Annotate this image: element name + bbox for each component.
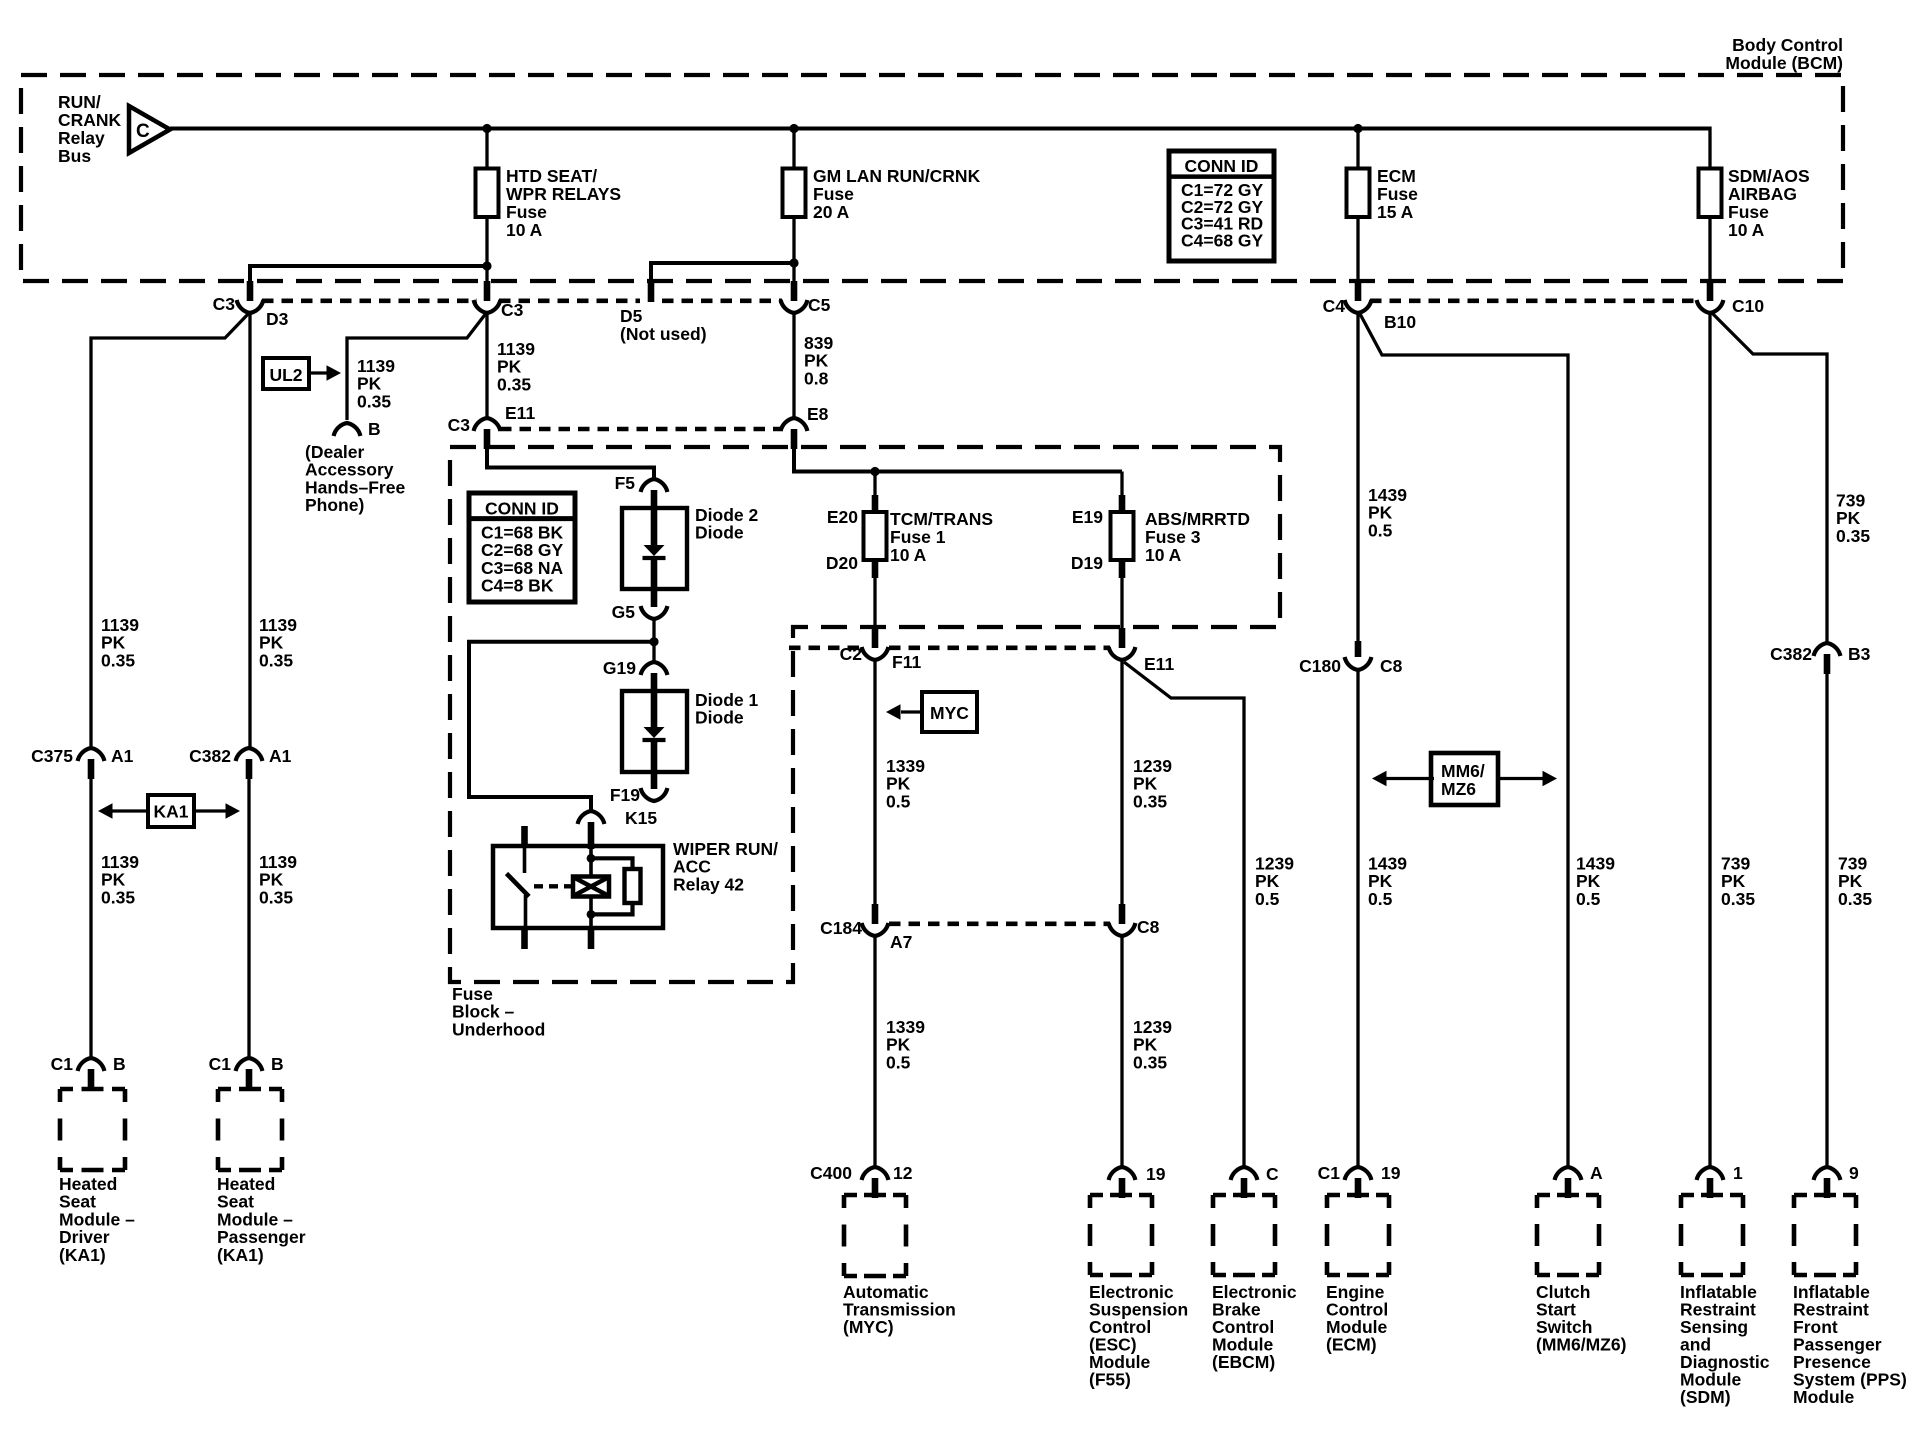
label C4 [1323,296,1346,316]
relay actuator dashed link [534,884,572,888]
svg-text:Fuse: Fuse [813,184,854,204]
Automatic Transmission box [844,1195,906,1276]
wire C10 down to SDM [1708,311,1711,1166]
svg-text:C400: C400 [810,1163,852,1183]
fuse SDM/AOS AIRBAG 10A [1699,169,1722,218]
label C1 (ECM) [1318,1163,1341,1183]
label Heated Seat Module Driver [59,1174,135,1265]
wire D3 diagonal to driver column [91,312,250,747]
svg-text:MM6/: MM6/ [1441,761,1485,781]
label F5 [615,473,636,493]
junction dot bus-ECM fuse [1353,124,1362,133]
svg-text:G5: G5 [612,602,636,622]
Inflatable Restraint PPS box [1794,1195,1856,1275]
svg-text:10 A: 10 A [1728,220,1765,240]
connector C5 pin [781,281,808,313]
svg-text:E11: E11 [1144,654,1174,674]
svg-text:B: B [113,1054,126,1074]
label Clutch Start Switch text [1536,1282,1626,1355]
svg-text:B: B [271,1054,284,1074]
connector C1/19 (ECM) [1345,1167,1372,1198]
svg-text:C2: C2 [840,644,863,664]
svg-text:D20: D20 [826,553,858,573]
svg-text:Diode: Diode [695,708,744,728]
connector A (clutch) [1555,1167,1582,1198]
svg-text:C10: C10 [1732,296,1764,316]
svg-text:15 A: 15 A [1377,202,1414,222]
svg-text:C3: C3 [501,300,524,320]
label C382 (A1) [189,746,231,766]
label GM LAN RUN/CRNK Fuse 20 A [813,166,981,222]
MM6/MZ6 harness arrow [1372,753,1557,805]
Fuse Block - Underhood dashed box [450,447,1280,982]
label C2 [840,644,863,664]
RUN/CRANK Relay Bus label [58,92,122,166]
svg-text:0.35: 0.35 [1133,791,1167,811]
wire TCM fuse to F11 [872,560,879,629]
relay pin stub top-left [521,826,528,848]
svg-text:(KA1): (KA1) [217,1245,264,1265]
wire dealer accessory branch [347,312,487,420]
label ESC module text [1089,1282,1188,1390]
wire branch to D5 [651,261,794,283]
junction dot branch D3 [482,261,491,270]
svg-text:C1: C1 [1318,1163,1341,1183]
Electronic Suspension Control box [1090,1195,1152,1275]
label 19 (ESC) [1146,1164,1166,1184]
svg-text:19: 19 [1146,1164,1166,1184]
label A1 (passenger) [269,746,292,766]
label G19 [603,658,636,678]
wire C375 to arrow-region driver [89,779,92,1058]
svg-text:Module: Module [1793,1387,1855,1407]
connector C3/D3 pin [237,281,264,313]
label Heated Seat Module Passenger [217,1174,306,1265]
KA1 harness arrow [98,795,240,827]
MYC callout box and arrow [886,692,977,732]
label 1139 PK 0.35 driver upper [101,615,139,670]
Heated Seat Module Driver box [60,1089,125,1170]
svg-text:10 A: 10 A [506,220,543,240]
label E8 [807,404,829,424]
wire branch to D3 [250,264,487,283]
relay switch [507,847,530,928]
wire C8 to ESC [1120,936,1123,1166]
connector 1 (SDM) [1697,1167,1724,1198]
svg-text:AIRBAG: AIRBAG [1728,184,1797,204]
svg-text:(SDM): (SDM) [1680,1387,1731,1407]
wire fuse GMLAN to connector C5 [792,217,795,283]
connector C3/E11 (fuse block) [474,418,501,449]
label 1139 PK 0.35 (dealer wire) [357,356,395,411]
label 12 [893,1163,913,1183]
wire B3 down to PPS [1825,674,1828,1166]
fuse ABS/MRRTD Fuse 3 10A [1111,512,1134,560]
connector D5 stub [648,283,655,302]
label Dealer Accessory Hands-Free Phone [305,442,405,515]
svg-text:Fuse: Fuse [506,202,547,222]
fuse TCM/TRANS Fuse 1 10A [864,512,887,560]
connector row dotted line BCM [262,298,1698,303]
connector row dotted line C184-C8 [889,921,1110,926]
label D3 [266,309,289,329]
CONN ID table (BCM) [1169,151,1274,261]
label 1339 PK 0.5 lower [886,1017,925,1072]
wire D3 to passenger column [248,311,251,747]
svg-text:D5: D5 [620,306,643,326]
label A1 (driver) [111,746,134,766]
svg-text:(F55): (F55) [1089,1370,1131,1390]
label Body Control Module (BCM) [1725,35,1843,73]
junction dot branch D5 [789,258,798,267]
label B3 [1848,644,1871,664]
wire fuse SDM to connector C10 [1708,217,1711,283]
Engine Control Module box [1327,1195,1389,1275]
CONN ID table (fuse block) [469,493,575,602]
WIPER RUN/ACC Relay 42 box [493,846,663,928]
svg-text:10 A: 10 A [890,545,927,565]
svg-text:B10: B10 [1384,312,1416,332]
label 1139 PK 0.35 passenger lower [259,852,297,907]
label 1239 PK 0.35 lower [1133,1017,1172,1072]
svg-text:Relay: Relay [58,128,105,148]
connector C2/F11 [862,628,889,660]
wire E11 into fuse block [487,448,654,478]
RUN/CRANK relay bus source triangle C [129,106,170,153]
junction dot TCM branch [870,467,879,476]
label B dealer [368,419,381,439]
label 739 PK 0.35 (PPS lower) [1838,854,1872,909]
wire C382 to arrow-region passenger [247,779,250,1058]
junction dot relay top [587,854,596,863]
svg-text:C4: C4 [1323,296,1346,316]
svg-text:0.35: 0.35 [1133,1052,1167,1072]
connector B dealer accessory [334,423,361,436]
relay pin stub bottom-left [521,927,528,949]
svg-text:C4=8 BK: C4=8 BK [481,576,554,596]
label 739 PK 0.35 (PPS upper) [1836,491,1870,546]
svg-text:A7: A7 [890,932,912,952]
label D20 [826,553,858,573]
connector 19 (ESC) [1109,1167,1136,1198]
label 1439 PK 0.5 (clutch) [1576,854,1615,909]
junction dot bus-GMLAN fuse [789,124,798,133]
svg-text:0.5: 0.5 [886,791,911,811]
fuse GM LAN RUN/CRNK 20A [783,169,806,218]
wire C5 to E8 [792,311,795,419]
label 1439 PK 0.5 (ECM upper) [1368,485,1407,540]
wire E8 into fuse block [794,448,1122,472]
label 1339 PK 0.5 upper [886,756,925,811]
svg-text:E11: E11 [505,403,535,423]
svg-text:0.35: 0.35 [497,374,531,394]
svg-text:0.35: 0.35 [259,887,293,907]
wire bus to fuse ECM [1356,129,1359,169]
label 9 (PPS) [1849,1163,1859,1183]
connector C382/B3 [1814,643,1841,674]
svg-text:F11: F11 [892,652,921,672]
label G5 [612,602,636,622]
connector C184/A7 [862,904,889,936]
svg-text:0.5: 0.5 [1368,520,1393,540]
connector C180/C8 [1345,641,1372,670]
relay resistor [591,858,641,914]
svg-text:A1: A1 [111,746,134,766]
svg-text:C3: C3 [448,415,471,435]
svg-text:19: 19 [1381,1163,1401,1183]
svg-text:WPR RELAYS: WPR RELAYS [506,184,621,204]
svg-text:Body Control: Body Control [1732,35,1843,55]
svg-text:C184: C184 [820,918,862,938]
svg-text:C382: C382 [1770,644,1812,664]
label Diode 1 [695,690,758,728]
wire RUN/CRANK relay bus [170,127,1710,171]
svg-text:C375: C375 [31,746,73,766]
label E20 [827,507,858,527]
svg-text:F19: F19 [610,785,640,805]
label C8 (C180) [1380,656,1403,676]
connector row dotted line F11-E11 [789,645,1110,650]
wire fuse ECM to connector C4 [1356,217,1359,283]
label C184 [820,918,862,938]
label C382 (B3) [1770,644,1812,664]
label E11 (exit) [1144,654,1174,674]
label HTD SEAT/WPR RELAYS Fuse 10 A [506,166,621,240]
relay coil [573,844,609,928]
svg-text:(ECM): (ECM) [1326,1335,1377,1355]
svg-text:Fuse 1: Fuse 1 [890,527,946,547]
connector C1/B passenger [236,1058,263,1089]
label C180 [1299,656,1341,676]
svg-text:A: A [1590,1163,1603,1183]
svg-text:Fuse: Fuse [1728,202,1769,222]
Clutch Start Switch box [1537,1195,1599,1275]
wire B10 to clutch column [1359,312,1568,1166]
svg-text:0.35: 0.35 [1836,526,1870,546]
svg-text:Relay 42: Relay 42 [673,874,744,894]
label A7 [890,932,912,952]
Electronic Brake Control Module box [1213,1195,1275,1275]
svg-text:E20: E20 [827,507,858,527]
wire bus to fuse HTD [485,129,488,169]
label K15 [625,808,657,828]
label Diode 2 [695,505,758,543]
label EBCM module text [1212,1282,1297,1372]
junction dot bus-HTD fuse [482,124,491,133]
svg-text:(KA1): (KA1) [59,1245,106,1265]
svg-text:HTD SEAT/: HTD SEAT/ [506,166,597,186]
connector C (EBCM) [1231,1167,1258,1198]
connector C375/A1 [78,748,105,779]
label Fuse Block - Underhood [452,984,545,1039]
svg-text:Module (BCM): Module (BCM) [1725,53,1843,73]
connector C1/B driver [78,1058,105,1089]
label PPS module text [1793,1282,1907,1407]
label 1239 PK 0.35 upper [1133,756,1172,811]
connector C3 pin (HTD) [474,281,501,313]
junction dot K15 branch [649,637,658,646]
wire ABS fuse to E11 exit [1119,560,1126,629]
connector C382/A1 [236,748,263,779]
label C1 (driver) [51,1054,74,1074]
wire E11 to EBCM column [1124,662,1244,1166]
svg-text:(EBCM): (EBCM) [1212,1352,1275,1372]
Diode 2 box [622,508,687,589]
svg-text:C1: C1 [51,1054,74,1074]
svg-text:20 A: 20 A [813,202,850,222]
svg-text:E19: E19 [1072,507,1103,527]
svg-text:C382: C382 [189,746,231,766]
wire G5 to G19 [652,619,655,663]
label B10 [1384,312,1416,332]
wire E11 down [1120,660,1123,904]
Heated Seat Module Passenger box [218,1089,282,1170]
label C3 (D3 pin) [213,294,236,314]
svg-text:MYC: MYC [930,703,969,723]
connector C8 (row4) [1109,904,1136,936]
label C3 (E11) [448,415,471,435]
connector F5 [641,479,668,509]
wire C4 down to C180 [1356,311,1359,643]
svg-text:MZ6: MZ6 [1441,779,1476,799]
connector C400/12 [862,1167,889,1198]
svg-text:C: C [1266,1164,1279,1184]
svg-text:Fuse 3: Fuse 3 [1145,527,1201,547]
relay pin stub bottom-mid [588,927,595,949]
wire bus to fuse GMLAN [792,129,795,169]
label 1139 PK 0.35 driver lower [101,852,139,907]
label ECM Fuse 15 A [1377,166,1418,222]
svg-text:0.35: 0.35 [357,391,391,411]
svg-text:ECM: ECM [1377,166,1416,186]
svg-text:Underhood: Underhood [452,1019,545,1039]
label C375 [31,746,73,766]
diode D1 symbol [643,691,666,772]
wire C3 to E11 [485,311,488,419]
svg-text:G19: G19 [603,658,636,678]
svg-text:C8: C8 [1380,656,1403,676]
connector C4/B10 pin [1345,281,1372,313]
Body Control Module (BCM) dashed box [21,75,1843,281]
label D19 [1071,553,1103,573]
svg-text:B: B [368,419,381,439]
label C (EBCM) [1266,1164,1279,1184]
label SDM module text [1680,1282,1770,1407]
connector G19 [641,662,668,692]
svg-text:Bus: Bus [58,146,91,166]
connector E8 (fuse block) [781,418,808,449]
label ECM module text [1326,1282,1388,1355]
label 1439 PK 0.5 (ECM lower) [1368,854,1407,909]
svg-text:0.5: 0.5 [1368,889,1393,909]
svg-text:SDM/AOS: SDM/AOS [1728,166,1810,186]
svg-text:GM LAN RUN/CRNK: GM LAN RUN/CRNK [813,166,981,186]
svg-text:0.35: 0.35 [1838,889,1872,909]
svg-text:C: C [136,121,150,142]
label TCM/TRANS Fuse 1 10 A [890,509,993,565]
label B (driver) [113,1054,126,1074]
svg-text:CRANK: CRANK [58,110,122,130]
wire C180 down to ECM [1356,670,1359,1166]
svg-text:(MM6/MZ6): (MM6/MZ6) [1536,1335,1626,1355]
UL2 callout box and arrow [263,358,341,389]
connector E11 exit [1109,628,1136,660]
connector F19 [641,772,668,801]
svg-text:D3: D3 [266,309,289,329]
Diode 1 box [622,691,687,772]
svg-text:0.5: 0.5 [1576,889,1601,909]
label A (clutch) [1590,1163,1603,1183]
svg-text:C8: C8 [1137,917,1160,937]
svg-text:UL2: UL2 [269,365,302,385]
label 1139 PK 0.35 passenger upper [259,615,297,670]
wire branch to K15 [469,642,654,812]
wire C10 to PPS column [1711,312,1827,644]
svg-text:K15: K15 [625,808,657,828]
label C1 (passenger) [209,1054,232,1074]
junction dot relay bottom [587,910,596,919]
svg-text:D19: D19 [1071,553,1103,573]
svg-text:A1: A1 [269,746,292,766]
label C5 [808,295,831,315]
label 739 PK 0.35 (SDM) [1721,854,1755,909]
svg-text:CONN ID: CONN ID [1185,156,1259,176]
svg-text:Phone): Phone) [305,495,364,515]
svg-text:B3: B3 [1848,644,1871,664]
diode D2 symbol [643,508,666,589]
svg-text:Fuse: Fuse [1377,184,1418,204]
svg-text:0.35: 0.35 [101,887,135,907]
connector K15 [578,811,605,849]
svg-text:(Not used): (Not used) [620,324,707,344]
wire F11 down [873,660,876,904]
svg-text:C3: C3 [213,294,236,314]
label C400 [810,1163,852,1183]
label 1 (SDM) [1733,1163,1743,1183]
svg-text:C5: C5 [808,295,831,315]
label Automatic Transmission (MYC) [843,1282,956,1337]
connector C10 pin [1697,281,1724,313]
svg-text:C4=68 GY: C4=68 GY [1181,230,1264,250]
svg-text:CONN ID: CONN ID [485,499,559,519]
label B (passenger) [271,1054,284,1074]
label F11 [892,652,921,672]
label D5 (Not used) [620,306,707,344]
svg-text:10 A: 10 A [1145,545,1182,565]
svg-text:0.5: 0.5 [886,1052,911,1072]
svg-text:9: 9 [1849,1163,1859,1183]
label WIPER RUN/ACC Relay 42 [673,839,778,894]
Inflatable Restraint SDM box [1681,1195,1743,1275]
svg-text:Diode: Diode [695,523,744,543]
connector 9 (PPS) [1814,1167,1841,1198]
label F19 [610,785,640,805]
label C10 [1732,296,1764,316]
wire to TCM fuse [873,472,876,514]
label ABS/MRRTD Fuse 3 10 A [1145,509,1250,565]
svg-text:ABS/MRRTD: ABS/MRRTD [1145,509,1250,529]
label SDM/AOS AIRBAG Fuse 10 A [1728,166,1810,240]
svg-text:0.8: 0.8 [804,368,829,388]
wire fuse HTD to connector C3 [485,217,488,283]
wire A7 to C400 [873,936,876,1166]
svg-text:0.35: 0.35 [1721,889,1755,909]
wire to ABS fuse [1120,472,1123,514]
fuse HTD SEAT/WPR RELAYS 10A [476,169,499,218]
connector G5 [641,589,668,619]
svg-text:RUN/: RUN/ [58,92,101,112]
svg-text:C180: C180 [1299,656,1341,676]
